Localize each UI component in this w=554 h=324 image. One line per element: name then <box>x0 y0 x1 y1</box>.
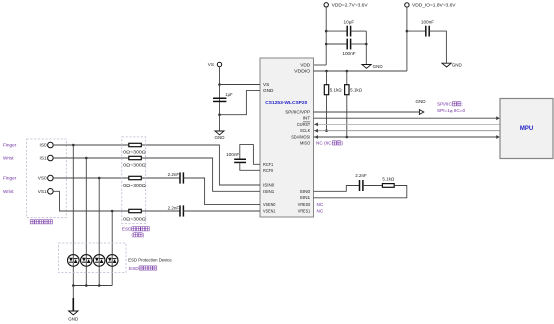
wire bus to ground <box>72 286 74 299</box>
ESD diode D4 <box>106 255 118 267</box>
wire drop IS0 to ESD <box>72 145 74 286</box>
wire IS0 to ISIN0 <box>141 145 260 185</box>
connector caption (electrode pad interface) <box>30 220 52 224</box>
wire CS/RST to MPU <box>314 123 501 125</box>
svg-text:VS1: VS1 <box>38 189 47 194</box>
svg-text:VS: VS <box>208 62 214 67</box>
wire drop IS1 to ESD <box>85 158 87 286</box>
svg-text:IIC=0: IIC=0 <box>454 108 466 113</box>
wire VDD_IO rail <box>406 7 408 71</box>
svg-text:5.1kΩ: 5.1kΩ <box>382 177 395 182</box>
connector dashed box <box>27 139 67 218</box>
resistor R7 5.1k <box>382 177 395 188</box>
svg-text:SPI=1: SPI=1 <box>437 108 450 113</box>
wire VDD rail <box>325 7 327 65</box>
IC U1 CS1253-WLCSP20 body <box>260 58 314 217</box>
wire SCLK to MPU <box>314 130 501 132</box>
svg-text:VS: VS <box>263 82 269 87</box>
svg-text:GND: GND <box>263 88 274 93</box>
wire INT to MPU <box>314 117 498 119</box>
MPU block <box>500 99 553 159</box>
svg-text:SPI/IIC/VPP: SPI/IIC/VPP <box>285 109 310 114</box>
wire VDDIO net <box>314 70 407 72</box>
resistor R3 0-300 <box>129 143 142 146</box>
svg-text:2.2nF: 2.2nF <box>168 172 180 177</box>
svg-text:MISO: MISO <box>300 141 310 146</box>
wire VS to IC <box>220 84 261 86</box>
wire VS0 row <box>53 177 129 179</box>
arrow SDA/MOSI into MPU <box>496 135 500 139</box>
junction IS0 drop <box>72 144 75 147</box>
svg-text:100nF: 100nF <box>421 20 434 25</box>
svg-text:0Ω~300Ω: 0Ω~300Ω <box>123 183 146 188</box>
svg-text:CS1253-WLCSP20: CS1253-WLCSP20 <box>265 100 307 106</box>
svg-text:SIN0: SIN0 <box>300 189 311 194</box>
resistor R5 0-300 <box>129 176 142 179</box>
svg-text:RCF1: RCF1 <box>263 162 274 167</box>
svg-text:SPI/IIC: SPI/IIC <box>437 102 452 107</box>
svg-text:0Ω~300Ω: 0Ω~300Ω <box>123 150 146 155</box>
svg-text:SCLK: SCLK <box>300 128 311 133</box>
wire C6 to VSEN0 <box>183 178 260 205</box>
ground symbol under C4 <box>215 131 226 140</box>
svg-text:ISIN1: ISIN1 <box>263 189 275 194</box>
svg-text:5.1kΩ: 5.1kΩ <box>350 87 363 92</box>
wire IS1 to ISIN1 <box>141 158 260 191</box>
svg-text:ESD Protection Device: ESD Protection Device <box>128 258 172 263</box>
svg-text:ESD: ESD <box>122 227 132 232</box>
svg-text:Finger: Finger <box>3 143 17 148</box>
capacitor C2 100nF <box>342 39 355 56</box>
svg-text:VDD_IO=1.8V~3.6V: VDD_IO=1.8V~3.6V <box>412 3 456 8</box>
junction on VDD rail lower <box>325 43 328 46</box>
wire IS1 row <box>53 157 129 159</box>
capacitor C5 100nF on RCF <box>226 152 246 163</box>
resistor R6 0-300 <box>129 209 142 212</box>
wire R7 to SIN1 <box>314 186 407 198</box>
junction R2 on SDA/MOSI <box>346 136 349 139</box>
ESD diode D3 <box>93 255 105 267</box>
svg-text:VRES1: VRES1 <box>298 208 311 213</box>
ESD device dashed box <box>58 243 126 273</box>
ground symbol under C3 <box>442 63 463 68</box>
resistor R1 5.1k pullup <box>324 71 342 131</box>
wire C8 to R7 <box>363 185 383 187</box>
wire branch to C2 <box>326 43 347 45</box>
svg-text:2.2nF: 2.2nF <box>355 173 367 178</box>
gnd select arrow <box>419 110 423 115</box>
ESD diode D1 <box>68 255 80 267</box>
svg-text:NC: NC <box>317 202 324 207</box>
svg-text:Finger: Finger <box>3 176 17 181</box>
ESD diode D2 <box>81 255 93 267</box>
wire SDA/MOSI to MPU <box>314 136 498 138</box>
svg-text:SIN1: SIN1 <box>300 195 311 200</box>
capacitor C7 2.2nF <box>168 205 184 216</box>
resistor R4 0-300 <box>129 156 142 159</box>
wire C1 to right rail <box>351 30 367 32</box>
svg-text:0Ω~300Ω: 0Ω~300Ω <box>123 217 146 222</box>
wire C7 to VSEN1 <box>183 210 260 212</box>
power terminal VDD <box>324 3 328 7</box>
capacitor C6 2.2nF <box>168 172 184 183</box>
wire ESD bottom bus <box>73 285 112 287</box>
svg-text:MPU: MPU <box>520 126 533 132</box>
svg-text:ESD: ESD <box>129 266 139 271</box>
svg-text:RCF0: RCF0 <box>263 168 274 173</box>
svg-text:GND: GND <box>373 64 384 69</box>
caption ESD protection circuit (chinese) <box>129 266 157 271</box>
junction below C4 <box>218 113 221 116</box>
svg-text:1μF: 1μF <box>225 92 233 97</box>
svg-text:CS/RST: CS/RST <box>297 122 311 127</box>
ESD resistor dashed box <box>122 137 146 224</box>
caption ESD protection resistors (chinese) <box>122 227 149 232</box>
terminal VS1 <box>48 189 54 195</box>
svg-text:VDD=2.7V~3.6V: VDD=2.7V~3.6V <box>332 3 369 8</box>
svg-text::: : <box>462 102 463 107</box>
svg-text:100nF: 100nF <box>342 51 355 56</box>
wire SPI/IIC/VPP to gnd select <box>314 111 420 113</box>
svg-text:IS1: IS1 <box>40 156 47 161</box>
svg-text:VSEN1: VSEN1 <box>263 208 276 213</box>
terminal IS0 <box>48 142 54 148</box>
svg-text:VDDIO: VDDIO <box>294 69 310 74</box>
svg-text:Wrist: Wrist <box>3 189 14 194</box>
wire C4 bottom to IC GND <box>220 91 261 115</box>
wire VDD pin to rail <box>314 64 327 66</box>
svg-text:GND: GND <box>215 135 226 140</box>
wire branch to C1 <box>326 30 347 32</box>
junction bus 3 <box>98 284 101 287</box>
junction bus 2 <box>85 284 88 287</box>
note SPI=1 IIC=0 (chinese comma) <box>437 108 466 113</box>
svg-text:ISIN0: ISIN0 <box>263 183 275 188</box>
capacitor C3 100nF <box>421 20 434 37</box>
arrow SDA/MOSI into IC <box>314 135 318 139</box>
junction bus 1 <box>72 284 75 287</box>
wire IS0 row <box>53 144 129 146</box>
svg-text:VDD: VDD <box>300 63 311 68</box>
capacitor C4 1uF <box>213 92 233 102</box>
svg-text:SDA/MOSI: SDA/MOSI <box>291 134 310 139</box>
wire RCF1 loop <box>240 145 260 165</box>
wire drop VS0 to ESD <box>98 178 100 286</box>
wire R6 to C7 <box>141 210 180 212</box>
svg-text:VSEN0: VSEN0 <box>263 202 276 207</box>
junction on VDD rail upper <box>325 30 328 33</box>
wire R5 to C6 <box>141 177 180 179</box>
junction right rail <box>365 43 368 46</box>
svg-text:100nF: 100nF <box>226 152 239 157</box>
junction R1 on SCLK <box>325 129 328 132</box>
svg-text:IS0: IS0 <box>40 143 47 148</box>
wire branch to C3 <box>407 30 426 32</box>
svg-text:5.1kΩ: 5.1kΩ <box>330 87 343 92</box>
wire RCF0 <box>240 163 260 170</box>
note SPI/IIC select (chinese) <box>437 102 463 107</box>
junction VS pin <box>218 83 221 86</box>
svg-text:VS0: VS0 <box>38 176 47 181</box>
arrow INT into MPU <box>496 116 500 120</box>
caption optional (chinese) <box>132 233 145 238</box>
arrow SCLK into IC <box>314 129 318 133</box>
svg-text:NC: NC <box>317 208 324 213</box>
wire drop VS1 to ESD <box>111 211 113 286</box>
svg-text:NC (IIC: NC (IIC <box>316 141 332 146</box>
wire C2 to right rail <box>351 43 367 45</box>
junction VDDIO R2 <box>346 70 349 73</box>
note NC IIC mode at MISO (chinese) <box>316 141 344 146</box>
wire SIN0 to filter <box>314 186 360 192</box>
arrow CS/RST into IC <box>314 123 318 127</box>
svg-text:Wrist: Wrist <box>3 156 14 161</box>
svg-text:VRES0: VRES0 <box>298 202 311 207</box>
svg-text:INT: INT <box>303 116 311 121</box>
capacitor C8 2.2nF <box>355 173 367 191</box>
ground symbol under VDD caps <box>362 64 383 69</box>
terminal IS1 <box>48 155 54 161</box>
wire VS rail <box>219 67 221 131</box>
ground symbol bottom <box>68 298 79 321</box>
wire C3 to gnd <box>429 31 446 63</box>
junction on VDD_IO rail <box>406 30 409 33</box>
capacitor C1 10uF <box>344 20 355 37</box>
wire right rail down <box>365 31 367 64</box>
junction VS0 drop <box>98 177 101 180</box>
power terminal VDD_IO <box>405 3 409 7</box>
svg-text:0Ω~300Ω: 0Ω~300Ω <box>123 163 146 168</box>
junction VDDIO R1 <box>325 70 328 73</box>
svg-text:GND: GND <box>452 63 463 68</box>
svg-text:2.2nF: 2.2nF <box>168 206 180 211</box>
junction VS1 drop <box>111 210 114 213</box>
wire VS1 bend <box>53 191 129 211</box>
resistor R2 5.1k pullup <box>345 71 363 137</box>
svg-text:GND: GND <box>68 316 79 321</box>
terminal VS0 <box>48 175 54 181</box>
junction IS1 drop <box>85 157 88 160</box>
svg-text:10μF: 10μF <box>344 20 355 25</box>
svg-text:GND: GND <box>416 99 427 104</box>
